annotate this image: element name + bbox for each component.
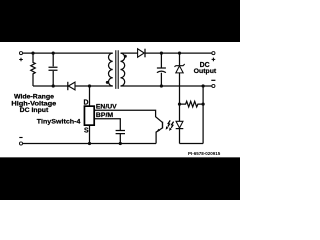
svg-text:D: D xyxy=(84,100,89,107)
svg-text:PI-6578-020915: PI-6578-020915 xyxy=(188,151,221,156)
label + output xyxy=(212,58,216,62)
diode D1 clamp xyxy=(67,82,69,90)
terminal + output xyxy=(212,52,215,55)
wire secondary top to diode xyxy=(121,52,138,54)
terminal - input xyxy=(19,142,22,145)
junction C2 bottom rail xyxy=(160,84,163,87)
junction R1 top rail xyxy=(31,52,34,55)
light arrow 1 xyxy=(168,120,170,126)
capacitor C1 xyxy=(49,53,58,86)
light arrow 2 xyxy=(171,122,173,128)
svg-text:S: S xyxy=(84,128,89,135)
top black band xyxy=(0,0,240,42)
junction S pin source rail xyxy=(88,142,91,145)
svg-text:Output: Output xyxy=(194,68,217,75)
label - output xyxy=(211,79,215,81)
resistor R1 xyxy=(31,53,35,86)
node A zener-LED-resistor xyxy=(178,103,181,106)
junction BP cap source rail xyxy=(119,142,122,145)
wire clamp rail xyxy=(33,85,113,87)
wire EN/UV to opto collector xyxy=(95,110,162,122)
svg-text:BP/M: BP/M xyxy=(96,112,113,119)
junction C2 top rail xyxy=(160,52,163,55)
terminal + input xyxy=(19,52,22,55)
wire top rail output side xyxy=(145,52,212,54)
transformer core xyxy=(116,50,118,89)
label + input xyxy=(19,58,23,62)
transformer T1 primary winding xyxy=(108,53,112,86)
wire source rail xyxy=(23,143,156,145)
label - input xyxy=(19,137,22,139)
opto emitter arrowhead xyxy=(156,129,160,133)
capacitor C2 output xyxy=(157,53,166,86)
wire DC minus rail xyxy=(121,85,212,87)
svg-text:DC Input: DC Input xyxy=(20,107,49,114)
junction C1 clamp rail xyxy=(52,84,55,87)
wire S pin xyxy=(89,125,91,143)
wire top rail primary side xyxy=(23,52,113,54)
zener VR1 xyxy=(179,53,181,65)
transformer phase dot secondary xyxy=(124,55,127,58)
junction C1 top rail xyxy=(52,52,55,55)
wire BP/M pin xyxy=(95,119,125,144)
resistor R2 feedback xyxy=(180,101,204,107)
bottom black band xyxy=(0,157,240,200)
opto emitter xyxy=(156,128,162,144)
transformer phase dot primary xyxy=(106,81,109,84)
svg-text:TinySwitch-4: TinySwitch-4 xyxy=(37,118,81,125)
diode D2 output xyxy=(138,49,145,57)
IC U2 TinySwitch-4 box xyxy=(84,106,94,125)
junction R2 right xyxy=(202,103,205,106)
junction output return xyxy=(202,84,205,87)
opto LED U1 xyxy=(176,121,183,128)
opto transistor bar xyxy=(162,122,164,129)
wire feedback right vertical xyxy=(202,86,204,144)
wire LED return xyxy=(180,143,204,145)
junction drain node xyxy=(88,84,91,87)
terminal - output xyxy=(212,84,215,87)
transformer T1 secondary winding xyxy=(121,53,125,86)
junction zener top rail xyxy=(178,52,181,55)
wire zener node to LED xyxy=(179,104,181,121)
wire drain to IC xyxy=(89,86,91,106)
svg-text:EN/UV: EN/UV xyxy=(96,104,118,111)
